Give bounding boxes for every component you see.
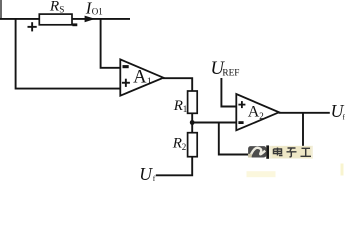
wire: R1 bottom to R2 top through junction (191, 113, 193, 133)
char gong (301, 148, 312, 156)
label A1 (133, 66, 152, 87)
current arrow IO1 (85, 16, 96, 23)
wire: left branch to A1 non-inverting input (16, 19, 121, 89)
resistor R2 (188, 133, 198, 157)
svg-text:2: 2 (259, 111, 264, 121)
svg-text:A: A (133, 66, 147, 87)
A2 inverting input mark - (238, 121, 243, 124)
polarity mark + (left of RS) (28, 22, 37, 31)
wire: node after arrow to A1 inverting input (101, 19, 121, 68)
label IO1 (85, 0, 103, 18)
wire: A2 output to Uf (279, 112, 330, 114)
svg-text:2: 2 (182, 142, 187, 152)
svg-text:R: R (172, 136, 182, 152)
char zi (287, 148, 297, 157)
svg-text:O1: O1 (92, 7, 103, 17)
wire: A1 output to R1 top (163, 78, 192, 92)
A1 non-inverting input mark + (122, 79, 130, 87)
svg-text:A: A (248, 104, 260, 121)
label A2 (248, 104, 264, 122)
watermark logo and text strip (248, 145, 313, 158)
wire: feedback from A2 output down and left to junction bus (219, 113, 303, 155)
watermark smudge bottom (247, 171, 276, 177)
wire: top bus from left edge through shunt (0, 18, 130, 20)
char dian (274, 148, 283, 156)
label Uf (right output) (331, 101, 345, 121)
node: junction of R1, R2 and A2 bus (190, 120, 195, 125)
wire: UREF to A2 non-inverting input (221, 78, 236, 107)
svg-text:REF: REF (222, 69, 239, 79)
svg-text:1: 1 (147, 77, 152, 87)
A1 inverting input mark - (123, 65, 129, 68)
label RS (49, 0, 65, 14)
svg-text:1: 1 (183, 104, 188, 114)
svg-text:U: U (139, 164, 153, 182)
label R1 (173, 98, 188, 114)
op-amp A2 (236, 94, 279, 130)
svg-text:R: R (173, 98, 183, 114)
svg-text:S: S (59, 4, 64, 14)
resistor R1 (188, 91, 198, 113)
wire: R2 bottom to Uf terminal (156, 157, 192, 176)
wire: junction bus to A2 inverting input (192, 122, 237, 124)
op-amp A1 (120, 59, 163, 95)
svg-text:R: R (49, 0, 60, 14)
label UREF (211, 59, 240, 79)
watermark smudge right edge (341, 164, 344, 176)
resistor RS (39, 14, 72, 25)
A2 non-inverting input mark + (238, 101, 245, 108)
polarity mark - (right of RS) (72, 23, 77, 26)
label Uf (bottom terminal) (139, 164, 156, 184)
label R2 (172, 136, 187, 153)
wire: left edge stub above top bus (0, 0, 2, 20)
